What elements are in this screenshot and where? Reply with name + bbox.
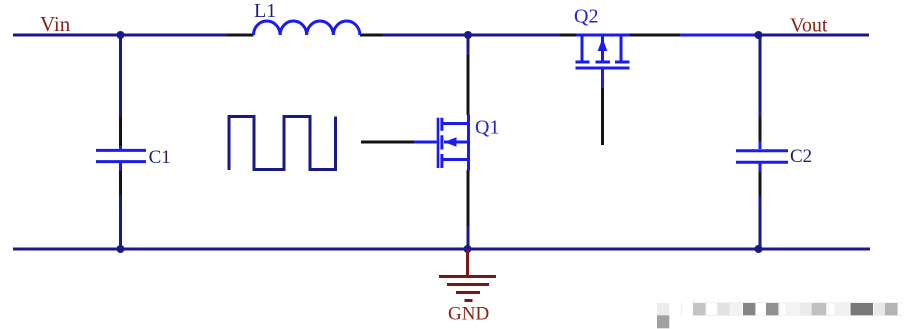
svg-text:Vout: Vout xyxy=(790,15,828,37)
svg-text:C2: C2 xyxy=(790,146,812,167)
svg-text:L1: L1 xyxy=(254,0,276,22)
svg-text:Q1: Q1 xyxy=(475,117,499,139)
svg-text:GND: GND xyxy=(448,304,489,325)
svg-text:C1: C1 xyxy=(149,147,171,168)
svg-text:Vin: Vin xyxy=(40,12,71,36)
svg-text:Q2: Q2 xyxy=(574,6,598,28)
